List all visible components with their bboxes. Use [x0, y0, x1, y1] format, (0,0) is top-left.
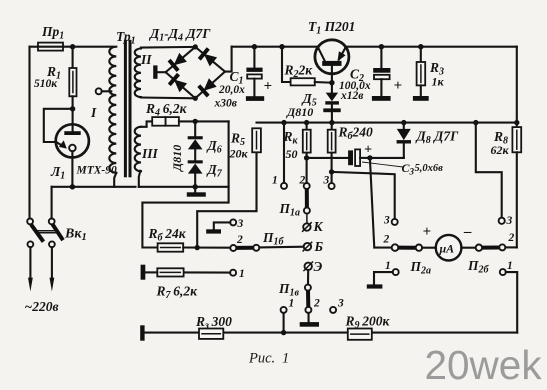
- wire mains top: [30, 46, 114, 48]
- wire C3 leader: [362, 162, 403, 167]
- svg-text:1: 1: [507, 260, 513, 272]
- svg-text:2: 2: [508, 232, 515, 244]
- fuse Пр1: [38, 43, 63, 51]
- wire right edge top: [516, 47, 518, 123]
- svg-text:2: 2: [313, 298, 320, 310]
- zener Д5: [323, 93, 340, 123]
- switch П1а: [304, 189, 310, 223]
- diode Д1: [169, 53, 187, 71]
- wire top rail right part: [345, 46, 517, 48]
- wire terminal 1 П1а: [281, 123, 287, 189]
- wire top rail left part: [232, 46, 319, 48]
- label R1 510к: [34, 64, 61, 90]
- transformer primary winding I: [109, 47, 116, 173]
- node R1/starter junction: [70, 106, 75, 111]
- transistor Т1: [315, 40, 349, 93]
- switch П1б: [230, 245, 303, 251]
- transformer winding III: [135, 127, 141, 171]
- svg-text:I: I: [90, 105, 97, 120]
- socket Э: [304, 262, 313, 271]
- svg-text:Д810: Д810: [170, 145, 184, 172]
- resistor R4: [152, 117, 179, 126]
- transformer core: [124, 40, 132, 178]
- resistor R7 6,2к: [146, 268, 237, 276]
- wire R4 to corner: [179, 120, 229, 122]
- svg-text:–: –: [463, 224, 472, 240]
- svg-text:3: 3: [337, 298, 344, 310]
- node R6 bottom: [329, 169, 334, 174]
- node Rб/R5 junction: [195, 245, 200, 250]
- socket К: [303, 223, 312, 232]
- wire starter loop: [44, 109, 73, 142]
- wire winding I bottom lead: [114, 173, 116, 187]
- svg-text:Т1 П201: Т1 П201: [308, 19, 355, 37]
- diode Д8: [397, 123, 411, 158]
- resistor R3: [417, 47, 426, 96]
- label R3 1к: [429, 60, 445, 89]
- svg-text:3: 3: [237, 218, 244, 230]
- svg-text:20wek: 20wek: [425, 342, 543, 388]
- node R2 top: [279, 44, 284, 49]
- svg-text:3: 3: [506, 215, 513, 227]
- ground R7: [141, 265, 146, 280]
- svg-text:х12в: х12в: [340, 90, 363, 102]
- wire mains bottom rail: [52, 184, 136, 189]
- label Rк 50: [283, 129, 299, 161]
- node C3: [367, 155, 372, 160]
- zener Д6: [188, 121, 203, 160]
- node Rк bottom: [304, 155, 309, 160]
- resistor R2: [282, 47, 332, 86]
- diode Д2: [199, 49, 217, 67]
- capacitor C2: [373, 47, 390, 96]
- svg-text:Д8 Д7Г: Д8 Д7Г: [415, 129, 460, 147]
- transformer winding II: [135, 49, 141, 98]
- wire to switch from mains rail: [51, 187, 53, 219]
- svg-text:+: +: [423, 224, 432, 240]
- wire П1в terminal 1: [281, 307, 287, 333]
- wire bridge minus up: [225, 47, 232, 72]
- ground stab rail: [187, 187, 206, 197]
- svg-text:1: 1: [282, 351, 289, 367]
- wire bridge edges: [166, 47, 225, 98]
- svg-text:Э: Э: [314, 259, 323, 274]
- ground C2: [372, 96, 391, 101]
- svg-text:II: II: [140, 52, 152, 67]
- label R8 62к: [491, 129, 510, 157]
- resistor R5: [252, 128, 261, 152]
- transformer primary tap: [96, 88, 112, 94]
- node Д6 top: [193, 119, 198, 124]
- wire left border: [28, 47, 30, 219]
- ground bridge left: [153, 65, 165, 78]
- wire minus rail: [257, 122, 517, 124]
- svg-text:3: 3: [383, 214, 390, 226]
- wire R5 link down: [197, 152, 256, 247]
- node base/R2: [329, 80, 334, 85]
- resistor Rб 24к: [158, 243, 231, 251]
- svg-text:х30в: х30в: [214, 98, 237, 110]
- node fuse/R1 junction: [70, 44, 75, 49]
- svg-text:К: К: [313, 219, 324, 234]
- svg-text:1: 1: [385, 260, 391, 272]
- ground bottom rail left: [140, 325, 144, 340]
- resistor R8: [512, 123, 521, 248]
- wire winding II top lead: [141, 46, 196, 49]
- node minus rail junctions: [281, 120, 519, 125]
- svg-text:50: 50: [286, 147, 298, 161]
- svg-text:2: 2: [236, 234, 243, 246]
- svg-text:Rб240: Rб240: [338, 125, 374, 143]
- label R5 20к: [229, 131, 249, 161]
- wire П2б terminal 1: [500, 269, 517, 333]
- label C3 5,0х6в: [402, 161, 444, 177]
- wire C3 node to П2а: [370, 158, 392, 248]
- wire Rк node to C3: [307, 157, 349, 159]
- wire П2а terminal 1 to ground: [374, 269, 399, 284]
- ground R3: [413, 96, 429, 101]
- switch Вк1: [27, 219, 63, 248]
- label Д5 Д810: [286, 91, 317, 119]
- svg-text:+: +: [364, 143, 372, 158]
- svg-text:+: +: [394, 78, 403, 94]
- svg-text:R7 6,2к: R7 6,2к: [156, 284, 199, 302]
- resistor R9 200к: [348, 329, 372, 340]
- terminal 3 П1в: [330, 307, 336, 313]
- switch П2а: [392, 244, 436, 251]
- capacitor C1: [246, 47, 262, 96]
- node R3 top: [418, 44, 423, 49]
- svg-text:Rб 24к: Rб 24к: [148, 226, 187, 244]
- svg-text:R9 200к: R9 200к: [345, 314, 391, 332]
- wire Rк to terminal 2: [304, 158, 310, 189]
- wire stab bottom rail: [139, 184, 229, 189]
- svg-text:5,0х6в: 5,0х6в: [415, 163, 444, 174]
- bridge node top: [193, 44, 198, 49]
- wire П1б terminal 3 to ground: [206, 219, 236, 233]
- diode Д3: [169, 74, 187, 92]
- ground C1: [246, 96, 264, 101]
- ground П1в terminal 2: [300, 313, 319, 327]
- switch П2б: [461, 244, 516, 251]
- svg-text:1к: 1к: [432, 75, 445, 89]
- resistor Rз 300: [199, 329, 223, 339]
- wire winding III top lead: [141, 121, 152, 126]
- resistor R1: [69, 47, 76, 132]
- wire mains leads with arrows: [28, 247, 54, 291]
- svg-text:μА: μА: [439, 242, 455, 256]
- socket Б: [303, 242, 312, 251]
- svg-text:Д810: Д810: [286, 105, 313, 119]
- bridge node bottom: [193, 96, 198, 101]
- svg-text:20,0х: 20,0х: [218, 84, 245, 96]
- svg-text:510к: 510к: [34, 78, 58, 90]
- svg-text:Rз 300: Rз 300: [195, 314, 232, 332]
- svg-text:2: 2: [299, 175, 306, 187]
- svg-text:20к: 20к: [229, 147, 249, 161]
- diode Д4: [199, 78, 217, 96]
- svg-text:~220в: ~220в: [25, 299, 59, 314]
- svg-text:III: III: [141, 146, 159, 161]
- wire bottom rail: [145, 330, 518, 335]
- svg-text:3: 3: [323, 175, 330, 187]
- svg-text:+: +: [264, 79, 273, 95]
- svg-text:62к: 62к: [491, 143, 510, 157]
- svg-text:R22к: R22к: [284, 63, 314, 81]
- wire R6 node to П2а terminal 3: [332, 172, 398, 225]
- svg-text:1: 1: [239, 268, 245, 280]
- neon lamp Л1 МТХ-90: [56, 124, 89, 187]
- node C2 top: [379, 44, 384, 49]
- label C2: [339, 67, 371, 103]
- svg-text:R4 6,2к: R4 6,2к: [145, 101, 188, 119]
- wire winding III bottom lead: [139, 171, 141, 187]
- svg-text:Б: Б: [314, 239, 324, 254]
- wire staircase to Rб: [142, 121, 228, 247]
- zener Д7: [188, 160, 203, 187]
- svg-text:1: 1: [272, 175, 278, 187]
- wire C3 node to Д8: [370, 157, 404, 159]
- ground П2а: [367, 284, 383, 288]
- resistor R6: [328, 123, 336, 172]
- meter μА: [436, 235, 462, 261]
- capacitor C3: [348, 149, 370, 166]
- svg-text:Рис.: Рис.: [248, 351, 275, 367]
- label C1: [214, 69, 246, 110]
- svg-text:2: 2: [383, 233, 390, 245]
- wire winding II bottom lead: [141, 96, 196, 99]
- switch П1в: [305, 270, 312, 313]
- wire П2б terminal 3 zigzag: [476, 123, 505, 224]
- resistor Rк: [303, 123, 311, 158]
- node C1 top: [252, 44, 257, 49]
- svg-text:1: 1: [289, 298, 295, 310]
- wire R6 to terminal 3: [329, 172, 335, 189]
